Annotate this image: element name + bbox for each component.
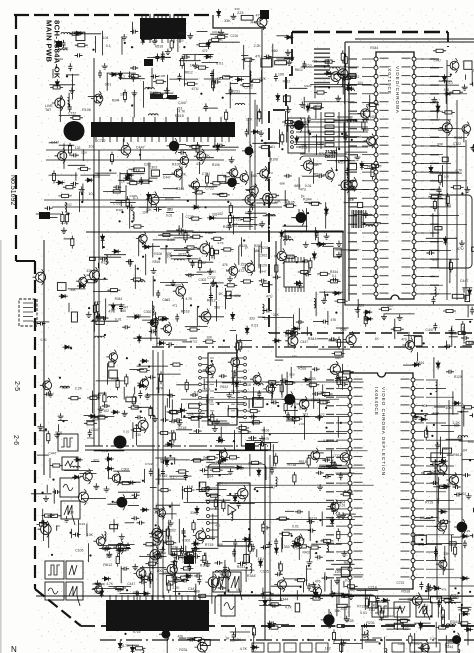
- wire: [270, 623, 289, 625]
- wire: [355, 38, 474, 40]
- wire: [150, 545, 158, 547]
- node J43: [351, 139, 353, 141]
- svg-text:4.7K: 4.7K: [186, 297, 193, 301]
- diode D42: [132, 315, 141, 319]
- resistor R67: [442, 111, 455, 114]
- wire: [208, 41, 240, 43]
- capacitor C128: [156, 551, 160, 559]
- node J47: [316, 243, 318, 245]
- capacitor C93: [161, 418, 169, 422]
- capacitor C43: [307, 115, 311, 123]
- node J61: [197, 306, 199, 308]
- wire: [290, 367, 292, 378]
- node J98: [70, 532, 72, 534]
- wire: [377, 605, 379, 616]
- wire: [438, 145, 465, 147]
- capacitor C94: [257, 390, 261, 398]
- wire: [318, 468, 347, 470]
- svg-text:47U: 47U: [258, 557, 265, 561]
- wire: [120, 566, 122, 583]
- resistor R63: [366, 103, 379, 106]
- svg-text:102: 102: [230, 639, 236, 643]
- wire: [330, 450, 332, 465]
- diode D28: [443, 92, 452, 96]
- wire: [123, 547, 131, 549]
- svg-text:C105: C105: [158, 74, 166, 78]
- resistor R35: [127, 182, 140, 185]
- svg-text:R344: R344: [56, 57, 64, 61]
- node J55: [104, 334, 106, 336]
- inductor L8: [133, 212, 135, 222]
- wire: [255, 487, 274, 489]
- capacitor C111: [322, 458, 330, 462]
- svg-text:33K: 33K: [443, 552, 450, 556]
- capacitor C86: [190, 393, 198, 397]
- transistor Q87: [418, 641, 429, 653]
- capacitor C48: [431, 296, 435, 304]
- inductor L6: [67, 98, 69, 108]
- svg-text:R715: R715: [133, 630, 141, 634]
- wire: [234, 430, 236, 451]
- bottom boxes row: [252, 643, 458, 652]
- component box B11: [348, 163, 356, 169]
- capacitor C60: [166, 342, 174, 346]
- wire: [319, 466, 333, 468]
- capacitor C19: [154, 208, 162, 212]
- capacitor C96: [174, 418, 182, 422]
- wire: [311, 118, 369, 120]
- svg-text:472: 472: [255, 223, 260, 227]
- wire: [211, 579, 213, 604]
- svg-text:R612: R612: [453, 453, 462, 457]
- wire: [449, 260, 451, 284]
- wire: [119, 172, 121, 191]
- wire: [319, 291, 343, 293]
- svg-text:47U: 47U: [401, 338, 408, 342]
- ground: [342, 75, 348, 81]
- wire: [364, 167, 376, 169]
- resistor R51: [282, 120, 295, 123]
- wire: [196, 157, 214, 159]
- inductor L29: [254, 384, 264, 386]
- transistor Q83: [454, 519, 467, 535]
- test point waveform: [394, 602, 410, 617]
- wire: [191, 415, 349, 417]
- wire: [102, 31, 104, 56]
- wire: [222, 541, 253, 543]
- wire: [140, 567, 166, 569]
- wire: [206, 466, 235, 468]
- wire: [212, 69, 214, 91]
- ground: [285, 107, 291, 113]
- wire: [133, 92, 135, 117]
- wire: [369, 95, 371, 117]
- node J22: [187, 200, 189, 202]
- capacitor C156: [453, 485, 461, 489]
- node J138: [433, 424, 435, 426]
- wire: [203, 107, 218, 109]
- node J21: [109, 169, 111, 171]
- svg-text:472: 472: [432, 258, 437, 262]
- diode D86: [452, 401, 461, 405]
- resistor R93: [240, 280, 253, 283]
- diode D81: [412, 363, 421, 367]
- diode D12: [147, 192, 151, 201]
- wire: [68, 93, 70, 107]
- component box B21: [215, 250, 219, 254]
- svg-text:2.2K: 2.2K: [321, 538, 329, 542]
- svg-text:1K: 1K: [236, 588, 241, 592]
- wire: [157, 352, 159, 598]
- wire: [321, 512, 323, 527]
- capacitor C78: [271, 400, 279, 404]
- component box B30: [126, 397, 136, 402]
- ground: [207, 268, 213, 274]
- ground: [132, 564, 138, 570]
- wire: [158, 469, 160, 485]
- svg-text:R344: R344: [330, 270, 338, 274]
- component box B6: [275, 61, 287, 65]
- svg-text:560: 560: [443, 447, 449, 451]
- transistor Q2: [434, 460, 447, 476]
- diode D15: [123, 176, 132, 180]
- resistor R84: [239, 339, 242, 352]
- inductor L20: [95, 336, 105, 338]
- component box B24: [57, 283, 66, 291]
- resistor R198: [345, 585, 358, 588]
- node J140: [435, 460, 437, 462]
- ground: [79, 187, 85, 193]
- ground: [86, 312, 92, 318]
- capacitor C6: [131, 74, 135, 82]
- svg-text:C447: C447: [127, 582, 135, 586]
- wire: [287, 106, 289, 132]
- capacitor C92: [249, 415, 257, 419]
- wire: [229, 82, 231, 109]
- wire: [372, 637, 381, 639]
- capacitor C88: [335, 375, 339, 383]
- wire: [39, 430, 47, 432]
- transistor Q41: [147, 316, 158, 330]
- capacitor C34: [245, 129, 249, 137]
- svg-text:33K: 33K: [335, 609, 342, 613]
- wire: [343, 123, 345, 140]
- wire: [294, 401, 296, 419]
- wire: [276, 58, 293, 60]
- resistor R143: [42, 514, 55, 517]
- comb IC small: [284, 257, 304, 292]
- resistor R87: [203, 340, 216, 343]
- capacitor C114: [237, 501, 241, 509]
- capacitor C170: [270, 604, 278, 608]
- resistor R49: [283, 204, 296, 207]
- wire: [139, 148, 141, 160]
- resistor R127: [284, 401, 287, 414]
- wire: [288, 125, 299, 127]
- wire: [183, 63, 185, 87]
- small black part F: [260, 10, 269, 19]
- svg-text:47U: 47U: [457, 247, 464, 251]
- resistor R131: [211, 412, 214, 425]
- component box B43: [295, 603, 300, 612]
- svg-text:R715: R715: [425, 501, 433, 505]
- wire: [205, 499, 230, 501]
- wire: [59, 114, 81, 116]
- wire: [189, 186, 217, 188]
- wire: [158, 377, 160, 393]
- wire: [199, 482, 201, 487]
- diode D89: [464, 628, 473, 632]
- svg-text:VIDEO/CHROMA: VIDEO/CHROMA: [395, 66, 400, 114]
- wire: [98, 150, 100, 446]
- ground: [54, 432, 60, 438]
- resistor R25: [189, 217, 202, 220]
- resistor R183: [458, 608, 471, 611]
- wire: [126, 497, 137, 499]
- resistor R105: [71, 236, 74, 249]
- capacitor C121: [307, 583, 311, 591]
- wire: [293, 314, 295, 332]
- wire: [447, 454, 453, 456]
- capacitor C72: [191, 260, 195, 268]
- wire: [206, 461, 215, 463]
- svg-text:10K: 10K: [234, 638, 241, 642]
- wire: [216, 402, 245, 404]
- wire: [107, 72, 136, 74]
- component box B22: [226, 291, 231, 298]
- wire: [148, 162, 150, 184]
- wire: [192, 459, 213, 461]
- wire: [248, 400, 250, 408]
- resistor R101: [155, 317, 168, 320]
- diode D66: [105, 457, 114, 461]
- wire: [452, 391, 454, 414]
- wire: [239, 421, 259, 423]
- svg-text:0.1: 0.1: [106, 44, 111, 48]
- node J145: [307, 639, 309, 641]
- wire: [263, 427, 265, 444]
- wire: [386, 628, 410, 630]
- ground: [43, 495, 49, 501]
- transistor Q65: [38, 521, 52, 538]
- component box B15: [435, 227, 442, 230]
- wire: [174, 458, 176, 465]
- resistor R86: [211, 237, 224, 240]
- wire: [50, 217, 58, 219]
- capacitor C13: [161, 54, 165, 62]
- resistor R11: [196, 43, 209, 46]
- diode D55: [165, 442, 174, 446]
- resistor R69: [446, 193, 449, 206]
- svg-text:4.7K: 4.7K: [285, 606, 293, 610]
- wire: [260, 264, 262, 273]
- node J45: [450, 74, 452, 76]
- ground: [259, 436, 265, 442]
- wire: [306, 208, 308, 231]
- svg-text:2-6: 2-6: [12, 435, 19, 445]
- capacitor C61: [122, 325, 130, 329]
- resistor R80: [309, 258, 312, 271]
- inductor L16: [330, 67, 340, 69]
- inductor L9: [266, 215, 276, 217]
- wire: [403, 364, 418, 366]
- node J33: [284, 224, 286, 226]
- ground: [116, 548, 122, 554]
- wire: [287, 330, 289, 347]
- diode D88: [460, 534, 469, 538]
- resistor R121: [320, 392, 333, 395]
- capacitor C64: [96, 313, 100, 321]
- node J119: [224, 592, 226, 594]
- resistor R68: [439, 172, 442, 185]
- component box B8: [358, 202, 363, 207]
- svg-text:104: 104: [339, 501, 345, 505]
- wire: [109, 586, 132, 588]
- test point waveform: [213, 572, 226, 592]
- wire: [165, 284, 175, 286]
- transistor Q46: [40, 378, 52, 393]
- svg-text:C302: C302: [149, 166, 158, 170]
- wire: [224, 295, 241, 297]
- test point waveform: [221, 596, 235, 616]
- inductor L12: [298, 124, 308, 126]
- resistor R72: [450, 91, 463, 94]
- bold text block TU101: [150, 94, 163, 99]
- ground: [286, 59, 292, 65]
- wire: [438, 129, 449, 131]
- wire: [322, 245, 334, 247]
- inductor L14: [345, 89, 355, 91]
- capacitor C140: [132, 493, 140, 497]
- svg-text:R231: R231: [316, 142, 325, 146]
- wire: [203, 379, 205, 389]
- wire: [324, 291, 326, 297]
- capacitor C55: [315, 230, 319, 238]
- svg-text:4.7K: 4.7K: [62, 46, 70, 50]
- resistor R184: [454, 544, 457, 557]
- wire: [259, 605, 290, 607]
- transistor Q16: [246, 183, 258, 198]
- wire: [345, 151, 367, 153]
- node J63: [88, 307, 90, 309]
- diode D25: [324, 71, 333, 75]
- wire: [309, 519, 311, 541]
- wire: [437, 498, 439, 521]
- wire: [297, 366, 312, 368]
- svg-text:R518: R518: [454, 136, 462, 140]
- node J70: [190, 304, 192, 306]
- node J20: [81, 193, 83, 195]
- resistor R96: [107, 289, 120, 292]
- wires right of U1: [421, 59, 467, 300]
- inductor L35: [276, 477, 278, 487]
- transistor Q4: [91, 91, 103, 106]
- ground: [340, 512, 346, 518]
- wire: [308, 263, 310, 272]
- wire: [125, 185, 127, 202]
- wire: [198, 413, 200, 428]
- resistor R162: [182, 488, 195, 491]
- board border left upper dashed: [15, 15, 17, 261]
- wire: [360, 165, 368, 167]
- svg-text:104: 104: [357, 81, 363, 85]
- svg-text:10K: 10K: [146, 208, 153, 212]
- svg-text:R402: R402: [459, 492, 467, 496]
- node J28: [281, 148, 283, 150]
- wire: [46, 149, 236, 151]
- wire: [369, 597, 371, 606]
- wire: [113, 470, 130, 472]
- capacitor C73: [149, 329, 157, 333]
- svg-text:333: 333: [135, 433, 141, 437]
- transistor Q72: [328, 499, 339, 513]
- node J71: [137, 268, 139, 270]
- inductor L22: [262, 304, 264, 314]
- resistor R12: [215, 35, 228, 38]
- resistor R196: [458, 622, 471, 625]
- node J60: [154, 279, 156, 281]
- svg-text:C447: C447: [163, 175, 171, 179]
- resistor R1: [181, 56, 184, 69]
- wire: [385, 623, 416, 625]
- node J110: [292, 545, 294, 547]
- wire: [145, 254, 147, 275]
- wire: [341, 639, 343, 653]
- svg-text:C302: C302: [182, 538, 190, 542]
- svg-text:0.01: 0.01: [123, 430, 129, 434]
- resistor R53: [309, 202, 322, 205]
- wire: [206, 394, 208, 417]
- inductor L5: [58, 49, 68, 51]
- capacitor C79: [312, 367, 320, 371]
- node J143: [379, 642, 381, 644]
- node J75: [59, 377, 61, 379]
- node J25: [121, 211, 123, 213]
- wire: [37, 454, 49, 456]
- resistor R112: [337, 377, 350, 380]
- svg-text:2.2K: 2.2K: [202, 154, 210, 158]
- wire: [303, 582, 305, 593]
- svg-text:R612: R612: [103, 563, 112, 567]
- inductor L30: [104, 532, 106, 542]
- wire: [467, 626, 469, 645]
- capacitor C132: [251, 544, 255, 552]
- svg-text:R106: R106: [270, 157, 278, 161]
- capacitor C39: [364, 210, 368, 218]
- inductor L43: [458, 649, 460, 653]
- transistor Q23: [358, 106, 370, 121]
- resistor R83: [85, 280, 98, 283]
- diode D21: [295, 136, 299, 145]
- wire: [194, 54, 196, 60]
- capacitor C179: [194, 574, 202, 578]
- transistor Q48: [76, 274, 87, 288]
- svg-text:MAIN PWB: MAIN PWB: [45, 20, 54, 63]
- node J80: [208, 419, 210, 421]
- wire: [344, 202, 359, 204]
- svg-text:R344: R344: [450, 620, 459, 624]
- node J64: [216, 285, 218, 287]
- svg-text:104: 104: [232, 224, 237, 228]
- capacitor C159: [446, 370, 454, 374]
- wire: [139, 206, 166, 208]
- svg-text:R402: R402: [303, 551, 311, 555]
- resistor R172: [208, 494, 221, 497]
- capacitor C137: [149, 468, 153, 476]
- diode D41: [111, 303, 115, 312]
- wire: [271, 585, 302, 587]
- resistor R5: [128, 75, 141, 78]
